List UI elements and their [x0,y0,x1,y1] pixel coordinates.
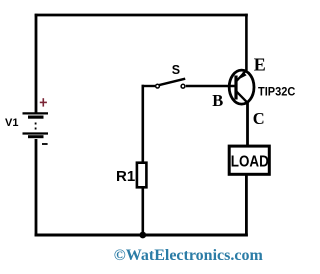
wire emitter to top rail [245,14,248,71]
junction dot [139,232,146,239]
battery minus sign [42,143,48,145]
wire bottom rail [35,234,248,237]
wire left rail lower [35,139,38,236]
svg-text:B: B [212,91,223,110]
svg-text:TIP32C: TIP32C [258,84,296,98]
svg-text:C: C [253,109,265,128]
wire R1 bottom to bottom rail [142,188,145,236]
transistor Q1 TIP32C [229,70,254,104]
svg-text:LOAD: LOAD [231,154,269,171]
svg-text:S: S [172,63,180,77]
wire LOAD bottom to bottom rail [245,175,248,237]
wire top rail [35,14,248,17]
LOAD box [229,146,269,174]
resistor R1 [137,163,147,188]
wire switch-junction to R1 top [142,85,145,163]
wire left rail upper [35,14,38,114]
wire collector to LOAD [246,101,249,146]
svg-text:V1: V1 [5,117,18,129]
svg-text:R1: R1 [116,168,135,185]
switch S [142,79,236,88]
svg-text:©WatElectronics.com: ©WatElectronics.com [114,247,263,264]
svg-text:E: E [254,54,266,74]
battery V1 [23,113,49,136]
battery plus sign [40,98,47,106]
